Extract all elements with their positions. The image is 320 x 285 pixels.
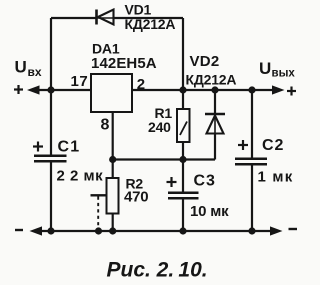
wire: input rail (left of DA1) (34, 89, 91, 91)
diode VD1 (96, 10, 114, 25)
svg-text:U: U (15, 58, 27, 77)
resistor R1 (177, 90, 190, 160)
svg-text:142ЕН5А: 142ЕН5А (91, 55, 157, 72)
svg-text:вых: вых (272, 68, 296, 80)
wire: top rail right segment (114, 17, 184, 19)
svg-text:470: 470 (124, 189, 148, 206)
wire: drop from top rail to main rail (182, 18, 184, 90)
svg-text:Рис. 2. 10.: Рис. 2. 10. (107, 259, 208, 282)
label: bottom left minus sign (15, 229, 23, 231)
arrow: output terminal (272, 85, 285, 94)
label Uвых (259, 59, 295, 80)
node: pin8 / node wire (109, 156, 116, 163)
node: bottom rail / C1 (47, 227, 54, 234)
svg-text:VD2: VD2 (190, 53, 220, 70)
node: bottom rail / R2 (109, 227, 116, 234)
svg-text:1 мк: 1 мк (258, 169, 294, 186)
arrow: bottom right terminal (270, 226, 283, 235)
node: main rail / VD2 top (211, 86, 218, 93)
label Uвх (15, 58, 42, 80)
wire: left vertical (input column) upper (50, 18, 52, 155)
arrow: bottom left terminal (30, 226, 43, 235)
svg-text:U: U (259, 59, 271, 78)
svg-text:КД212А: КД212А (125, 16, 176, 32)
svg-text:2: 2 (137, 76, 145, 93)
wire: top rail left segment (51, 17, 96, 19)
node: input rail / left column (47, 86, 54, 93)
node: bottom rail / C3 (179, 227, 186, 234)
capacitor C2 (235, 90, 267, 231)
svg-text:8: 8 (101, 117, 110, 134)
arrow: input terminal (27, 85, 40, 94)
svg-text:С3: С3 (194, 173, 216, 190)
node: R1 bottom / C3 top (179, 156, 186, 163)
svg-text:10 мк: 10 мк (190, 203, 229, 220)
label: output plus sign (287, 87, 296, 96)
wire: DA1 pin 8 down (112, 112, 114, 160)
svg-text:вх: вх (28, 65, 42, 79)
svg-text:С1: С1 (58, 139, 81, 156)
label: bottom right minus sign (289, 228, 298, 230)
node: bottom rail / R2 wiper (95, 227, 102, 234)
node: main rail / C2 top (248, 86, 255, 93)
svg-text:2 2 мк: 2 2 мк (57, 168, 104, 185)
label: input plus sign (14, 85, 23, 94)
svg-text:240: 240 (148, 119, 171, 135)
svg-text:17: 17 (71, 73, 89, 90)
capacitor C3 (167, 160, 199, 232)
wire: output rail (right of DA1) (132, 89, 274, 91)
resistor R2 (trimmer) (91, 160, 119, 232)
node: bottom rail / C2 (248, 227, 255, 234)
wire: node horizontal (pin8 to R1 bottom to VD2 bottom) (113, 158, 215, 160)
node: main rail / R1 top (179, 86, 186, 93)
svg-text:С2: С2 (262, 137, 284, 154)
op-amp / IC DA1 box (91, 74, 132, 112)
wire: left vertical (input column) lower (50, 162, 52, 231)
capacitor C1 (33, 142, 67, 162)
svg-text:КД212А: КД212А (186, 72, 237, 88)
diode VD2 (205, 90, 225, 160)
wire: bottom rail (36, 230, 272, 232)
